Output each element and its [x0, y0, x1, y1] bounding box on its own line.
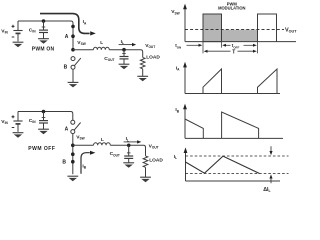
wire: rail to CIN	[43, 21, 45, 30]
IL lower dashed bound	[186, 173, 289, 175]
svg-text:MODULATION: MODULATION	[218, 6, 245, 11]
capacitor COUT (top circuit)	[120, 53, 129, 59]
resistor LOAD (bottom circuit)	[143, 156, 148, 167]
T right arrow	[238, 50, 257, 53]
arrow IL (top circuit)	[119, 43, 137, 46]
VSW y-axis	[184, 8, 186, 42]
node switch B top contact (closed, bottom circuit)	[71, 152, 75, 156]
IA y-axis	[184, 66, 186, 94]
tON arrow	[187, 44, 203, 47]
node switch A bottom contact (closed, top circuit)	[71, 34, 75, 38]
node CIN junction (top circuit)	[42, 19, 46, 23]
IL upper dashed bound	[186, 155, 289, 157]
IB time baseline	[185, 137, 283, 139]
IA ramp 2	[258, 69, 278, 94]
ground (COUT, bottom circuit)	[123, 163, 134, 168]
wire: junction to COUT	[128, 145, 130, 155]
IB main ramp	[222, 112, 259, 138]
IB partial ramp at start	[185, 119, 203, 138]
wire: CIN to ground	[43, 123, 45, 129]
ground (CIN, bottom circuit)	[38, 129, 49, 134]
wire: rail to CIN	[43, 112, 45, 121]
arrow IL (bottom circuit)	[124, 140, 142, 143]
VSW pulse 1 (tON, shaded)	[203, 14, 222, 42]
svg-text:B: B	[62, 159, 66, 165]
resistor LOAD (top circuit)	[140, 57, 145, 68]
ground (switch B, top circuit)	[68, 82, 79, 87]
ground (CIN, top circuit)	[38, 39, 49, 44]
tOFF left arrow	[222, 44, 230, 47]
node COUT junction (top circuit)	[122, 48, 126, 52]
dimension extension lines	[202, 42, 204, 54]
wire: COUT to ground	[128, 158, 130, 162]
svg-text:T: T	[232, 49, 235, 55]
node switch A top contact (closed, top circuit)	[71, 25, 75, 29]
svg-text:PWM ON: PWM ON	[32, 46, 55, 52]
ground (switch B, bottom circuit)	[67, 176, 78, 181]
T left arrow	[204, 50, 231, 53]
IL time baseline	[186, 180, 281, 182]
wire: inductor to VOUT corner	[110, 145, 145, 156]
IB y-axis	[184, 108, 186, 138]
svg-text:LOAD: LOAD	[149, 158, 163, 164]
current path arrow IB (curve up through switch B)	[81, 153, 90, 174]
wire: switch B to ground	[72, 69, 74, 82]
wire: VIN+ to node A (top rail, top circuit)	[18, 21, 73, 25]
svg-text:A: A	[65, 34, 69, 40]
capacitor CIN (bottom circuit)	[39, 118, 48, 124]
svg-text:PWM OFF: PWM OFF	[28, 146, 55, 152]
shaded tOFF area under VOUT level	[222, 30, 258, 42]
ground (LOAD, bottom circuit)	[140, 177, 151, 182]
wire: node A vertical (through closed switch A)	[72, 24, 74, 50]
wire: CIN to ground	[43, 33, 45, 39]
wire: switch A to VSW and switch B	[72, 134, 74, 175]
delta IL bottom arrow (up)	[269, 174, 272, 183]
IA axis arrowhead	[183, 62, 187, 68]
node CIN junction (bottom circuit)	[42, 110, 46, 114]
IA ramp 1	[203, 69, 222, 94]
wire: load to ground	[142, 69, 144, 76]
ground (LOAD, top circuit)	[137, 76, 148, 81]
svg-text:L: L	[101, 137, 104, 142]
current path arrow IA (thick curve through switch A)	[40, 14, 90, 34]
node switch B bottom contact (closed, bottom circuit)	[71, 160, 75, 164]
svg-text:L: L	[100, 40, 103, 45]
VSW pulse 2	[258, 14, 277, 42]
battery VIN (bottom circuit)	[12, 112, 23, 132]
IA time baseline	[185, 93, 280, 95]
node VSW junction (top circuit)	[71, 48, 75, 52]
capacitor COUT (bottom circuit)	[124, 153, 133, 159]
node VSW junction (bottom circuit)	[71, 144, 75, 148]
battery VIN (top circuit)	[12, 21, 23, 41]
inductor L (top circuit)	[93, 47, 109, 49]
wire: inductor to VOUT corner	[109, 50, 142, 58]
svg-text:B: B	[64, 64, 68, 70]
svg-text:LOAD: LOAD	[146, 55, 160, 61]
node COUT junction (bottom circuit)	[127, 144, 131, 148]
wire: junction to COUT	[123, 50, 125, 57]
wire: VSW to inductor	[73, 144, 94, 146]
delta IL top arrow (down)	[269, 146, 272, 155]
switch A (open, bottom circuit)	[71, 120, 81, 133]
IL axis arrowhead	[184, 147, 188, 153]
wire: load to ground	[145, 167, 147, 177]
wire: VIN+ to switch A (top rail, bottom circuit)	[18, 112, 73, 121]
svg-text:A: A	[65, 127, 69, 133]
ground (COUT, top circuit)	[119, 64, 130, 69]
ground (VIN battery, bottom circuit)	[13, 133, 24, 138]
VSW time baseline	[185, 41, 296, 43]
wire: VSW to inductor	[73, 49, 93, 51]
IB axis arrowhead	[183, 104, 187, 110]
inductor L (bottom circuit)	[94, 143, 111, 146]
ground (VIN battery, top circuit)	[13, 42, 24, 47]
VSW axis arrowhead	[183, 4, 187, 10]
IL triangle ripple trace	[186, 156, 260, 173]
capacitor CIN (top circuit)	[39, 27, 48, 33]
switch B (open, top circuit)	[71, 57, 81, 70]
tOFF right arrow	[244, 44, 257, 47]
wire: COUT to ground	[123, 59, 125, 64]
IL y-axis	[185, 152, 187, 182]
VOUT dashed level line	[185, 29, 284, 31]
